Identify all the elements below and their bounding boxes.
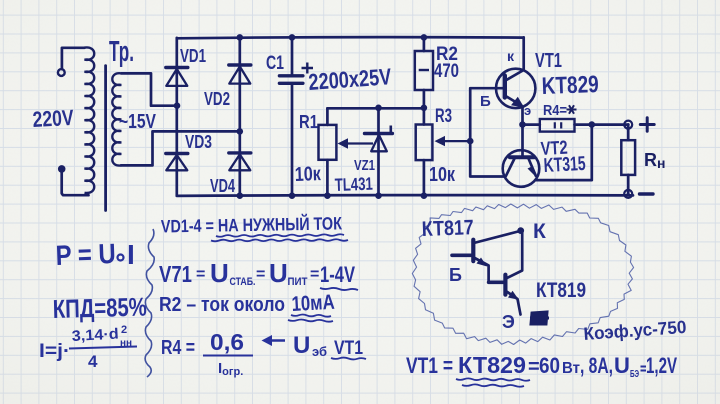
wire bridge left column: [175, 38, 178, 196]
svg-text:VD4: VD4: [210, 176, 235, 196]
sketch cloud outline: [412, 204, 633, 345]
diode VD3: [166, 154, 188, 171]
underline: [216, 234, 344, 237]
wire R1 wiper arrow: [338, 138, 374, 148]
svg-text:10к: 10к: [294, 163, 322, 186]
wire VT2 emitter to R4 output node: [536, 125, 592, 181]
svg-text:R4=: R4=: [543, 102, 567, 119]
svg-text:1,2V: 1,2V: [646, 353, 677, 378]
svg-text:4: 4: [88, 352, 98, 371]
svg-text:0,6: 0,6: [210, 329, 244, 355]
svg-text:БЭ: БЭ: [630, 369, 639, 380]
svg-text:КТ819: КТ819: [536, 279, 586, 302]
transistor KT817: [452, 231, 520, 282]
separator brace: [145, 229, 154, 377]
capacitor C1: [279, 37, 303, 195]
note R2 line: [159, 291, 335, 322]
svg-text:2: 2: [121, 324, 127, 336]
transformer TR primary winding: [85, 47, 95, 193]
note R4 line: [161, 329, 366, 378]
svg-text:К: К: [533, 220, 546, 243]
transistor KT819: [489, 231, 523, 315]
wire primary top lead: [62, 48, 85, 69]
wire R1 top to node: [327, 107, 424, 110]
svg-text:KT829: KT829: [541, 71, 599, 100]
wire secondary bottom tap: [121, 131, 239, 165]
svg-text:U: U: [269, 258, 288, 288]
diode VD1: [166, 68, 188, 86]
transformer core: [104, 66, 107, 211]
svg-text:TL431: TL431: [334, 174, 373, 195]
wire secondary top tap: [121, 73, 175, 105]
output terminal nodes: [624, 121, 632, 198]
wire bottom rail: [177, 194, 633, 198]
svg-text:60: 60: [539, 353, 560, 378]
terminal minus: [640, 192, 654, 195]
svg-text:Б: Б: [480, 93, 491, 110]
svg-text:U: U: [210, 258, 229, 288]
svg-text:V71: V71: [159, 261, 192, 287]
svg-text:R4 =: R4 =: [161, 337, 195, 359]
svg-text:U: U: [614, 353, 630, 378]
resistor R2: [415, 37, 433, 108]
label R4= with star: [543, 102, 577, 119]
svg-text:VZ1: VZ1: [354, 157, 375, 174]
scribble blob: [530, 312, 549, 324]
svg-text:СТАБ.: СТАБ.: [230, 276, 256, 288]
note VZ1 line: [159, 258, 358, 290]
transformer TR primary terminal bottom: [58, 165, 66, 173]
terminal plus: [640, 118, 654, 131]
wire bridge right column: [238, 37, 241, 195]
svg-text:VD3: VD3: [185, 132, 212, 152]
wire VT1 base / VT2 collector link: [470, 88, 505, 176]
svg-text:R1: R1: [299, 112, 318, 132]
formula I=j: [39, 324, 137, 371]
svg-text:R2 – ток около: R2 – ток около: [159, 294, 285, 316]
svg-text:1-4V: 1-4V: [320, 262, 355, 287]
transformer TR secondary winding: [112, 73, 121, 165]
svg-text:10мА: 10мА: [291, 291, 335, 316]
svg-text:э: э: [524, 103, 531, 118]
resistor R4: [523, 119, 629, 132]
svg-text:КТ829: КТ829: [458, 352, 526, 378]
svg-text:KT315: KT315: [543, 153, 586, 177]
node K cloud: [517, 227, 524, 234]
svg-text:=: =: [310, 266, 319, 283]
bottom note VT1=KT829: [406, 352, 677, 387]
svg-text:Тр.: Тр.: [109, 36, 134, 68]
label C1 plus: [302, 63, 314, 74]
transistor VT1 KT829: [496, 37, 535, 124]
svg-text:=: =: [256, 266, 265, 283]
svg-text:3,14·d: 3,14·d: [71, 326, 119, 345]
svg-text:эб: эб: [312, 344, 327, 359]
svg-text:220V: 220V: [32, 105, 75, 132]
resistor R1 (pot): [319, 108, 337, 195]
wire R3 wiper arrow: [435, 136, 474, 146]
svg-text:VD1-4 = НА НУЖНЫЙ ТОК: VD1-4 = НА НУЖНЫЙ ТОК: [161, 212, 343, 236]
svg-text:I: I: [127, 239, 135, 270]
svg-text:10к: 10к: [429, 164, 456, 186]
svg-text:VD1: VD1: [180, 46, 206, 66]
wire top rail: [177, 37, 524, 38]
svg-text:VD2: VD2: [204, 89, 230, 109]
resistor Rn (load): [621, 125, 635, 195]
svg-text:R3: R3: [435, 106, 452, 127]
svg-text:VT1 =: VT1 =: [406, 353, 453, 378]
svg-text:Б: Б: [449, 265, 462, 285]
transformer TR primary terminal top: [58, 69, 65, 76]
svg-text:470: 470: [434, 61, 459, 82]
svg-text:P = U: P = U: [55, 238, 116, 271]
svg-text:КПД=85%: КПД=85%: [52, 292, 147, 324]
svg-text:U: U: [293, 332, 310, 359]
svg-text:I=j·: I=j·: [39, 341, 70, 362]
svg-text:, 8А,: , 8А,: [580, 353, 613, 378]
svg-text:C1: C1: [266, 53, 284, 74]
wire primary bottom lead: [62, 172, 89, 196]
diode VD4: [229, 153, 251, 170]
zener VZ1 TL431: [365, 108, 393, 196]
svg-text:Э: Э: [502, 312, 515, 332]
transistor VT2 KT315: [503, 125, 540, 187]
junction dots: [174, 34, 595, 199]
svg-text:=: =: [528, 356, 540, 378]
resistor R3 (pot): [416, 108, 433, 195]
svg-text:Вт: Вт: [562, 360, 580, 377]
svg-text:~15V: ~15V: [119, 111, 157, 133]
svg-text:КТ817: КТ817: [421, 216, 474, 241]
svg-text:=: =: [196, 266, 205, 283]
svg-text:VT1: VT1: [535, 50, 562, 72]
svg-text:VT1: VT1: [334, 338, 363, 359]
svg-text:к: к: [507, 48, 515, 64]
diode VD2: [229, 65, 251, 84]
svg-text:ПИТ: ПИТ: [288, 276, 308, 288]
